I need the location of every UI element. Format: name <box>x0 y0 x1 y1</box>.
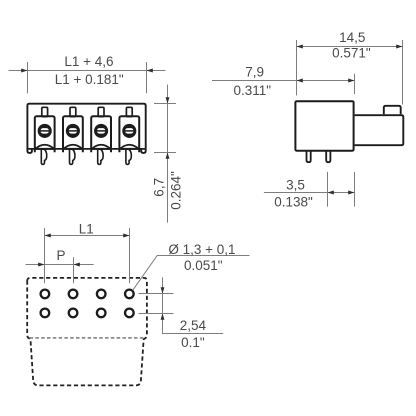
dimension L1: line <box>45 235 130 237</box>
clamp unit 4 tab <box>126 107 132 116</box>
svg-text:P: P <box>56 248 65 263</box>
svg-text:L1 + 4,6: L1 + 4,6 <box>64 54 113 69</box>
screw 1 head <box>38 124 52 138</box>
svg-text:L1 + 0.181": L1 + 0.181" <box>55 72 124 87</box>
svg-text:0.311": 0.311" <box>234 83 272 98</box>
hole A3 <box>97 290 106 299</box>
hole A4 <box>125 290 134 299</box>
dimension L1+4,6: right arrow <box>147 69 153 73</box>
dimension L1: right extension line <box>129 228 131 283</box>
svg-text:0.1": 0.1" <box>181 335 205 350</box>
svg-text:0.264": 0.264" <box>169 171 184 210</box>
screw 3 slot mid line <box>96 130 106 132</box>
side view: pin 2 <box>326 151 330 163</box>
dimension P: right extension line <box>73 257 75 283</box>
bottom view: dashed separator line <box>30 337 145 339</box>
clamp unit 1 feet <box>35 149 55 152</box>
front view: body bottom edge line <box>27 148 145 150</box>
svg-text:0.138": 0.138" <box>274 194 313 209</box>
clamp unit 1 bottom dome <box>35 145 54 149</box>
dimension 3,5: right arrow <box>348 191 354 195</box>
clamp unit 4 tower <box>119 116 139 149</box>
clamp unit 4 bottom dome <box>120 145 139 149</box>
svg-text:6,7: 6,7 <box>152 178 167 197</box>
clamp unit 2 tower <box>63 116 83 149</box>
dimension 14,5: line <box>297 46 403 48</box>
solder pin hook 3 <box>98 149 103 164</box>
svg-text:14,5: 14,5 <box>339 30 365 45</box>
dimension 3,5: right extension line <box>354 172 356 207</box>
dimension 6,7: down arrow <box>166 97 170 103</box>
clamp unit 4 feet <box>119 149 139 152</box>
hole A1 <box>41 290 50 299</box>
dimension L1: left extension line <box>44 228 46 283</box>
clamp unit 1 tab <box>42 107 48 116</box>
dimension 6,7: top tick <box>154 103 176 105</box>
dimension 3,5: left extension line <box>327 172 329 207</box>
hole A2 <box>69 290 78 299</box>
bottom view: dashed body outline <box>27 278 147 386</box>
clamp unit 2 feet <box>63 149 83 152</box>
solder pin hook 1 <box>41 149 46 164</box>
clamp unit 3 tab <box>98 107 104 116</box>
clamp unit 2 tab <box>70 107 76 116</box>
svg-text:L1: L1 <box>79 221 94 236</box>
hole B1 <box>41 309 50 318</box>
dimension 2,54: down arrow <box>161 287 165 293</box>
svg-text:3,5: 3,5 <box>286 177 305 192</box>
hole B4 <box>125 309 134 318</box>
dimension 3,5: line <box>264 192 355 194</box>
screw 1 slot mid line <box>40 130 50 132</box>
dimension 7,9: left arrow <box>297 79 303 83</box>
screw 3 head <box>94 124 108 138</box>
side view: rear latch tab <box>384 106 401 114</box>
side view: pin 1 <box>307 151 311 163</box>
svg-text:7,9: 7,9 <box>245 65 264 80</box>
dimension P: right arrow <box>74 263 80 267</box>
screw 4 slot <box>125 128 133 134</box>
screw 1 slot <box>41 128 49 134</box>
svg-text:0.571": 0.571" <box>332 45 371 60</box>
dimension 7,9: right extension line <box>354 74 356 94</box>
dimension 14,5: right arrow <box>396 45 402 49</box>
dimension P: line <box>26 264 94 266</box>
screw 2 slot <box>69 128 77 134</box>
screw 4 head <box>122 124 136 138</box>
svg-text:0.051": 0.051" <box>184 258 223 273</box>
dimension 2,54: top tick <box>139 293 174 295</box>
hole B2 <box>69 309 78 318</box>
side view: main body <box>295 101 353 151</box>
screw 4 slot mid line <box>124 130 134 132</box>
hole B3 <box>97 309 106 318</box>
solder pin hook 4 <box>126 149 131 164</box>
dimension P: left arrow <box>38 263 44 267</box>
svg-text:2,54: 2,54 <box>180 318 207 333</box>
front view: connector body outline <box>27 104 145 153</box>
dimension 7,9: right arrow <box>348 79 354 83</box>
dimension 2,54: bottom tick <box>139 313 174 315</box>
clamp unit 3 tower <box>91 116 111 149</box>
dimension 14,5: left arrow <box>297 45 303 49</box>
dimension 6,7: bottom tick <box>154 152 176 154</box>
dimension 2,54: up arrow <box>161 314 165 320</box>
dimension L1: right arrow <box>123 234 129 238</box>
hole diameter leader line <box>133 256 250 291</box>
clamp unit 3 feet <box>91 149 111 152</box>
dimension L1+4,6: right extension line <box>146 62 148 93</box>
dimension L1+4,6: left extension line <box>27 62 29 93</box>
clamp unit 2 bottom dome <box>64 145 83 149</box>
dimension 14,5: left extension line <box>296 40 298 95</box>
dimension 7,9: line <box>212 80 355 82</box>
svg-text:Ø 1,3 + 0,1: Ø 1,3 + 0,1 <box>168 242 235 257</box>
clamp unit 3 bottom dome <box>92 145 111 149</box>
dimension L1+4,6: left arrow <box>21 69 27 73</box>
dimension L1+4,6: line <box>9 70 166 72</box>
screw 3 slot <box>97 128 105 134</box>
screw 2 slot mid line <box>68 130 78 132</box>
clamp unit 1 tower <box>35 116 55 149</box>
dimension 6,7: up arrow <box>166 153 170 159</box>
dimension 3,5: left arrow <box>328 191 334 195</box>
dimension 6,7: vertical line <box>167 85 169 223</box>
dimension 2,54: vertical line and foot <box>163 277 224 333</box>
screw 2 head <box>66 124 80 138</box>
solder pin hook 2 <box>70 149 75 164</box>
side view: rear housing block <box>355 115 404 145</box>
dimension L1: left arrow <box>45 234 51 238</box>
dimension 14,5: right extension line <box>402 40 404 105</box>
